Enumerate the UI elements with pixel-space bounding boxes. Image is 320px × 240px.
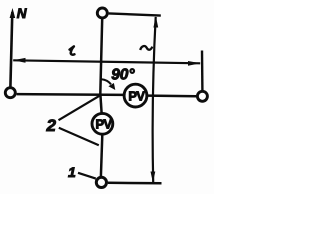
svg-text:1: 1 (68, 164, 76, 180)
wire (bottom horizontal from bottom terminal) (108, 182, 162, 185)
svg-text:90°: 90° (111, 67, 135, 84)
svg-text:PV: PV (128, 88, 145, 103)
svg-text:2: 2 (46, 116, 57, 135)
wire (top horizontal from top terminal) (109, 13, 161, 15)
meter PV1 (upper right, in horizontal branch) (124, 84, 147, 107)
wire (right horizontal: meter PV1 to right terminal) (148, 94, 196, 97)
svg-text:PV: PV (95, 117, 112, 132)
label ~ (AC sign) (140, 46, 152, 50)
leader line from 2 to lower wire (59, 128, 99, 145)
leader line from 1 to bottom terminal (78, 173, 96, 179)
leader line from 2 to junction (59, 95, 101, 120)
wire (meter PV2 to bottom terminal) (101, 135, 102, 176)
arrow N (vertical reference axis with up arrowhead) (10, 8, 16, 87)
wire (left horizontal: left terminal to meter PV1) (17, 93, 123, 96)
meter PV2 (lower, in vertical branch) (92, 113, 113, 134)
terminal top (97, 8, 107, 18)
wire (junction to meter PV2) (100, 95, 101, 114)
terminal bottom (96, 177, 106, 187)
dimension line l (horizontal, arrows both ends) (13, 58, 200, 66)
svg-text:N: N (17, 6, 27, 21)
terminal right (197, 91, 207, 101)
dimension line ~ (vertical, arrows both ends) (151, 16, 159, 182)
terminal left (5, 88, 15, 98)
wire (main vertical: top terminal to junction) (100, 19, 102, 95)
arc arrow 90 degrees (phase angle pointer) (101, 79, 115, 90)
extension line (right, above right terminal) (201, 51, 204, 91)
label l (70, 46, 75, 54)
